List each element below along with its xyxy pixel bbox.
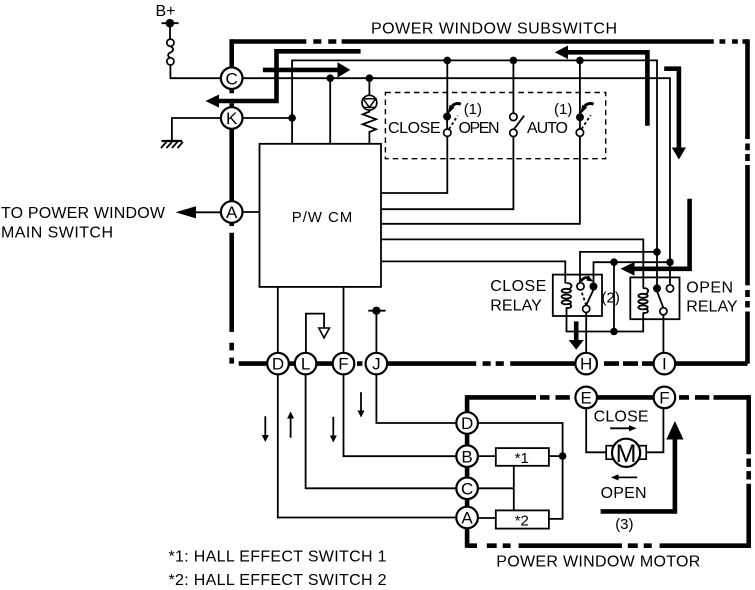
svg-text:K: K [226,109,238,128]
svg-text:*1: HALL EFFECT SWITCH 1: *1: HALL EFFECT SWITCH 1 [169,549,387,566]
wire rail1: CM pin1 up and across to open relay NO contact [292,60,657,288]
motor M [606,439,646,468]
svg-text:CLOSE: CLOSE [594,409,649,426]
circuit breaker [167,39,174,65]
connector J [366,353,388,375]
svg-text:AUTO: AUTO [527,120,568,137]
switch AUTO (open) [510,113,525,136]
svg-text:OPEN: OPEN [601,485,647,502]
svg-text:I: I [662,355,667,374]
svg-text:L: L [301,355,310,374]
arrow to power window main switch [176,206,221,218]
svg-text:POWER WINDOW SUBSWITCH: POWER WINDOW SUBSWITCH [371,21,617,38]
svg-text:F: F [338,355,348,374]
head of H arrow [569,340,584,350]
battery node B+ [162,19,179,28]
flow arrow open direction [611,474,637,480]
node close NC to rail1 drop [653,248,661,256]
svg-text:MAIN SWITCH: MAIN SWITCH [1,224,113,241]
wire E to motor [586,408,606,452]
wire motor B to hall 1 [478,455,496,457]
svg-text:P/W CM: P/W CM [292,209,353,226]
wire switch3 to CM [381,60,580,223]
flow arrow close direction [610,425,636,431]
node hall junction [559,452,567,460]
thick flow arrow to relays [634,199,690,269]
connector K [221,107,243,129]
svg-text:C: C [226,69,238,88]
wire CM to close relay coil [381,261,565,283]
wire close relay to H [585,313,587,353]
svg-text:(2): (2) [602,290,620,307]
svg-text:J: J [372,355,381,374]
close relay actuation arrow [581,275,594,282]
svg-text:OPEN: OPEN [686,279,733,296]
wire J to motor D [376,374,456,423]
node K-row junction [288,114,296,122]
wire open relay to I [662,315,664,353]
switch CLOSE/OPEN (pressed) [443,113,458,137]
connector A motor [456,507,478,529]
close relay contacts and blade [577,283,598,313]
switch1 actuation arrow [447,104,461,115]
svg-text:OPEN: OPEN [459,120,500,137]
connector I [654,353,676,375]
connector D [267,353,289,375]
svg-text:B: B [461,447,472,466]
close relay box [553,275,602,316]
connector F [333,353,355,375]
connector L [295,353,317,375]
svg-text:*2: HALL EFFECT SWITCH 2: *2: HALL EFFECT SWITCH 2 [169,572,387,589]
svg-text:A: A [461,509,473,528]
thick flow arrow right at top [263,68,339,73]
flow arrow down D wire [262,416,269,442]
connector E [575,387,597,409]
wire switch1 to CM [381,60,447,193]
wire J up to tap node [375,311,377,353]
ground [161,141,183,148]
wire breaker to connector C [170,65,221,78]
wire switch2 to CM [381,60,513,209]
thick flow arrow down right side [664,69,679,149]
wire motor D to hall junction [478,423,563,456]
node rail1 switch3 [576,57,584,65]
wire D to motor A [278,374,457,517]
svg-text:D: D [272,355,284,374]
subswitch box right border (chain) [745,39,750,363]
svg-text:*2: *2 [515,513,529,530]
wire CM to D [277,287,279,353]
svg-text:RELAY: RELAY [490,297,542,314]
switch3 actuation arrow [580,104,594,115]
node rail2 to CM pin2 [326,74,334,82]
node rail1 switch2 [510,57,518,65]
thick flow arrow from C up across [218,51,361,101]
motor box right border (chain) [746,395,751,548]
svg-text:A: A [226,203,238,222]
ground wire from K [172,118,221,140]
wire B+ to breaker [169,23,171,39]
wire motor C to hall link [478,487,514,489]
connector H [575,353,597,375]
wire mid vertical between relays [613,262,615,331]
svg-text:B+: B+ [156,3,176,20]
svg-text:M: M [616,440,637,468]
head of right arrow [338,62,351,77]
svg-text:H: H [580,355,592,374]
wire close relay common up and across to open relay NC [594,262,671,283]
thick flow arrow top right to left [566,52,647,126]
wire CM to open relay coil [381,239,643,288]
wire A to CM [243,211,260,213]
thick flow arrow motor up [601,438,675,511]
thick flow arrow above H [574,321,579,341]
wire motor A to hall 2 [478,517,496,519]
open arrow symbol [319,328,330,338]
subswitch box left border (chain) through C K A [229,39,234,363]
subswitch box bottom border (chain) through D L F J H I [239,361,748,366]
open relay contacts and blade [653,284,674,315]
flow arrow down F wire [330,417,337,443]
connector C motor [456,478,478,500]
svg-text:POWER WINDOW MOTOR: POWER WINDOW MOTOR [496,553,700,570]
svg-text:CLOSE: CLOSE [490,278,546,295]
connector A [221,201,243,223]
P/W CM box [260,144,382,287]
subswitch box top border (chain) [232,39,748,44]
connector D motor [456,412,478,434]
wire F to motor B [344,374,457,456]
wire L to motor C [306,374,457,488]
motor box top border (chain) through E F [467,395,749,400]
connector F motor [654,387,676,409]
svg-text:CLOSE: CLOSE [388,120,441,137]
wire rail2: C across to open relay NC contact [243,78,671,285]
svg-text:(3): (3) [615,516,633,533]
node coil common junction [610,328,618,336]
connector C [221,67,243,89]
head of left arrow top [206,95,220,108]
wire close relay NC contact to open relay common vertical [580,252,657,283]
resistor [363,110,376,144]
open relay coil [638,288,648,313]
svg-text:RELAY: RELAY [686,299,738,316]
wire rail2 to CM pin2 [329,78,331,144]
svg-text:(1): (1) [554,101,572,118]
node mid vertical junction [610,258,618,266]
svg-text:TO POWER WINDOW: TO POWER WINDOW [1,205,166,222]
flow arrow up L wire [287,412,294,438]
head of motor up arrow [666,421,683,440]
flow arrow down J wire [358,392,365,417]
wire L hook to other page [306,314,324,353]
tap node above J [368,307,385,315]
motor box bottom border (chain) [467,543,751,548]
wire rail2 to lamp [368,78,370,95]
wire relay coil commons joined [567,308,644,332]
switch auto-contact (pressed) [576,113,591,136]
svg-text:E: E [581,389,592,408]
wire K row to rail1 vertical [243,117,293,119]
indicator lamp [362,95,377,110]
close relay coil [562,283,572,308]
wire junction down to hall 2 [549,456,563,519]
motor box left border (chain) through D B C A [465,395,470,548]
svg-text:F: F [659,389,669,408]
head of subswitch left arrow [555,46,568,60]
wire hall1 to hall2 link [513,466,515,511]
hall effect switch 1 box [496,448,549,466]
head of relay arrow [621,262,635,276]
dashed switch detail box [385,93,605,159]
connector B motor [456,445,478,467]
svg-text:D: D [461,414,473,433]
svg-text:C: C [461,479,473,498]
svg-text:(1): (1) [464,101,482,118]
node rail1 switch1 [444,57,452,65]
wire hall1 to junction [549,455,563,457]
wire motor to F [646,408,663,452]
node rail2 to lamp [366,74,374,82]
open relay box [630,277,679,319]
node open NC junction [666,258,674,266]
wire CM to F [343,287,345,353]
head of down arrow [672,148,686,160]
hall effect switch 2 box [496,510,549,528]
svg-text:*1: *1 [515,450,529,467]
